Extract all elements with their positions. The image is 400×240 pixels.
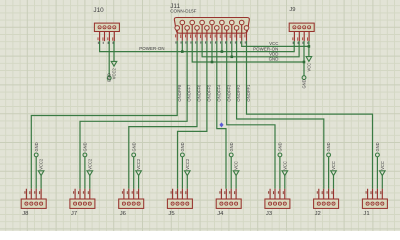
- junction on GND at J11 pin8: [211, 61, 214, 64]
- svg-text:J6: J6: [120, 211, 127, 217]
- wire J7 pin3 to ground: [84, 157, 86, 189]
- connector J9: [289, 23, 314, 44]
- wire net VCC (J11 pin14 to J9 pin4): [242, 41, 309, 47]
- svg-text:GND: GND: [34, 142, 39, 151]
- svg-text:ONOFF2: ONOFF2: [236, 84, 241, 102]
- svg-text:ONOFF4: ONOFF4: [216, 84, 221, 102]
- wire VDD tap from J11 pin12: [231, 41, 233, 57]
- wire J1 pin4 to power terminal: [381, 176, 383, 189]
- power terminal VCC2 at J7: [87, 171, 93, 176]
- power terminal VCC at J2: [331, 171, 337, 176]
- svg-text:J7: J7: [71, 211, 77, 217]
- ground terminal GND at J3: [278, 153, 282, 157]
- wire J9 pin3 to ground: [303, 41, 305, 76]
- svg-text:VCC2: VCC2: [136, 158, 141, 170]
- svg-text:ONOFF3: ONOFF3: [226, 84, 231, 102]
- svg-text:GND: GND: [180, 142, 185, 151]
- svg-text:GND: GND: [229, 142, 234, 151]
- svg-text:GND: GND: [375, 142, 380, 151]
- junction on VDD at J11 pin12: [231, 56, 234, 59]
- wire J4 pin4 to power terminal: [235, 176, 237, 189]
- svg-text:POWER-ON: POWER-ON: [139, 46, 164, 51]
- svg-text:VCC2: VCC2: [87, 158, 92, 170]
- origin marker (blue diamond): [219, 122, 223, 127]
- power terminal VCC2 at J5: [185, 171, 191, 176]
- svg-text:VCC2: VCC2: [39, 158, 44, 170]
- wire J3 pin4 to power terminal: [284, 176, 286, 189]
- ground terminal GND at J2: [327, 153, 331, 157]
- svg-text:VCC: VCC: [234, 161, 239, 170]
- svg-text:J3: J3: [266, 211, 273, 217]
- wire J8 pin3 to ground: [35, 157, 37, 189]
- wire net ONOFF6 (J11 to bottom connector): [129, 41, 197, 189]
- wire GND tap from J11 pin8: [211, 41, 213, 62]
- svg-text:VCC: VCC: [380, 161, 385, 170]
- ground terminal GND at J9: [302, 76, 306, 80]
- connector J8: [21, 189, 46, 209]
- svg-text:GND: GND: [302, 79, 307, 88]
- svg-text:VCC: VCC: [331, 161, 336, 170]
- svg-text:GND: GND: [269, 57, 279, 62]
- wire net POWER-ON (J10 pin1 to J9 pin1): [100, 41, 295, 52]
- svg-text:GND: GND: [82, 142, 87, 151]
- power terminal VCC at J9: [306, 57, 312, 62]
- junction GND branch at J9: [303, 61, 306, 64]
- wire net ONOFF3 (J11 to bottom connector): [227, 41, 275, 189]
- wire J2 pin3 to ground: [328, 157, 330, 189]
- ground terminal GND at J4: [229, 153, 233, 157]
- svg-text:GND: GND: [106, 73, 111, 82]
- svg-text:GND: GND: [277, 142, 282, 151]
- wire net VDD (J11 pin6 to J9 pin2): [202, 41, 299, 57]
- svg-text:ONOFF5: ONOFF5: [207, 84, 212, 102]
- svg-text:J4: J4: [217, 211, 224, 217]
- connector J6: [119, 189, 144, 209]
- wire net ONOFF1 (J11 to bottom connector): [247, 41, 373, 189]
- wire J5 pin4 to power terminal: [186, 176, 188, 189]
- power terminal VCC2 at J8: [38, 171, 44, 176]
- svg-text:VCC2: VCC2: [185, 158, 190, 170]
- wire J5 pin3 to ground: [181, 157, 183, 189]
- wire J10 pin4 to VCC2 power terminal: [113, 41, 115, 61]
- junction on POWER-ON at J11 pin2: [181, 50, 184, 53]
- svg-text:J8: J8: [22, 211, 29, 217]
- svg-text:ONOFF7: ONOFF7: [187, 84, 192, 102]
- wire J7 pin4 to power terminal: [89, 176, 91, 189]
- wire POWER-ON taps from J11 pins: [182, 41, 222, 52]
- wire J4 pin3 to ground: [230, 157, 232, 189]
- svg-text:ONOFF1: ONOFF1: [246, 84, 251, 102]
- connector J7: [70, 189, 95, 209]
- wire net GND (J11 pin4 to J9 pin3 branch): [192, 41, 304, 62]
- wire net ONOFF8 (J11 to bottom connector): [31, 41, 177, 189]
- ground terminal GND at J1: [376, 153, 380, 157]
- connector J1: [362, 189, 387, 209]
- power terminal VCC at J1: [380, 171, 386, 176]
- connector J10: [94, 23, 119, 44]
- ground terminal GND at J6: [132, 153, 136, 157]
- wire J2 pin4 to power terminal: [333, 176, 335, 189]
- power terminal VCC2 at J6: [136, 171, 142, 176]
- svg-text:J2: J2: [315, 211, 321, 217]
- svg-text:J5: J5: [168, 211, 175, 217]
- wire J6 pin4 to power terminal: [138, 176, 140, 189]
- ground terminal GND at J10: [107, 76, 111, 80]
- svg-text:CONN-D15F: CONN-D15F: [170, 8, 196, 13]
- ground terminal GND at J7: [83, 153, 87, 157]
- junction VCC at J9 pin4: [308, 45, 311, 48]
- svg-text:ONOFF8: ONOFF8: [177, 84, 182, 102]
- power terminal VCC2 at J10: [111, 61, 117, 66]
- connector J11 (CONN-D15F): [174, 18, 249, 34]
- wire net ONOFF7 (J11 to bottom connector): [80, 41, 187, 189]
- svg-text:J9: J9: [289, 7, 295, 13]
- wire J6 pin3 to ground: [133, 157, 135, 189]
- junction on POWER-ON at J11 pin10: [221, 50, 224, 53]
- power terminal VCC at J4: [233, 171, 239, 176]
- wire J9 pin4 through VCC junction to power terminal: [308, 41, 310, 57]
- svg-text:J1: J1: [363, 211, 369, 217]
- connector J2: [314, 189, 339, 209]
- wire J1 pin3 to ground: [376, 157, 378, 189]
- wire net ONOFF2 (J11 to bottom connector): [237, 41, 324, 189]
- svg-text:ONOFF6: ONOFF6: [197, 84, 202, 102]
- connector J4: [216, 189, 241, 209]
- power terminal VCC at J3: [282, 171, 288, 176]
- ground terminal GND at J5: [181, 153, 185, 157]
- connector J5: [167, 189, 192, 209]
- wire J10 pin3 to ground: [108, 41, 110, 76]
- wire J8 pin4 to power terminal: [40, 176, 42, 189]
- svg-text:GND: GND: [131, 142, 136, 151]
- svg-text:GND: GND: [326, 142, 331, 151]
- svg-text:J10: J10: [93, 7, 104, 14]
- wire J3 pin3 to ground: [279, 157, 281, 189]
- svg-text:VCC2: VCC2: [112, 68, 117, 80]
- ground terminal GND at J8: [34, 153, 38, 157]
- wire net ONOFF5 (J11 to bottom connector): [178, 41, 207, 189]
- wire net ONOFF4 (J11 to bottom connector): [217, 41, 226, 189]
- svg-text:VCC: VCC: [282, 161, 287, 170]
- connector J3: [265, 189, 290, 209]
- svg-text:VCC: VCC: [306, 63, 311, 72]
